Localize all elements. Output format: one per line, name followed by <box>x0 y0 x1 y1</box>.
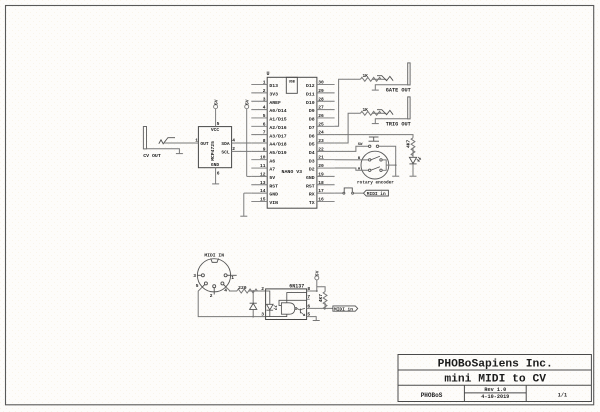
svg-text:17: 17 <box>318 188 324 194</box>
svg-text:A6: A6 <box>269 158 275 164</box>
power flag 5V (opto VCC) <box>315 270 321 279</box>
svg-text:28: 28 <box>318 96 324 102</box>
svg-text:4: 4 <box>263 105 266 111</box>
svg-text:U: U <box>267 71 270 77</box>
resistor R5 4K7 (pull-up) <box>318 292 327 310</box>
svg-text:A0/D14: A0/D14 <box>269 108 286 114</box>
svg-text:9: 9 <box>263 146 266 152</box>
svg-text:GND: GND <box>306 175 315 181</box>
svg-text:A1/D15: A1/D15 <box>269 117 286 123</box>
resistor R4 220 <box>237 285 258 293</box>
wire nano GND pin 14 to ground <box>244 193 252 216</box>
svg-text:A7: A7 <box>269 167 275 173</box>
svg-text:PHOBoSapiens Inc.: PHOBoSapiens Inc. <box>438 358 553 370</box>
svg-text:SW: SW <box>358 143 363 147</box>
svg-text:30: 30 <box>318 80 324 86</box>
svg-text:Rev 1.0: Rev 1.0 <box>484 387 506 393</box>
ground (gate jack sleeve) <box>372 89 379 91</box>
svg-text:8: 8 <box>263 138 266 144</box>
svg-text:D13: D13 <box>269 83 278 89</box>
ground (trig jack sleeve) <box>372 123 379 125</box>
svg-text:D11: D11 <box>306 92 315 98</box>
svg-text:11: 11 <box>260 163 266 169</box>
svg-text:4: 4 <box>232 138 235 144</box>
wire 4K7 to output <box>324 303 326 309</box>
svg-text:6: 6 <box>263 121 266 127</box>
wire encoder common to ground rail <box>386 164 396 166</box>
svg-text:GND: GND <box>269 192 278 198</box>
svg-text:1K: 1K <box>362 73 368 79</box>
wire nano D4 pin 22 to encoder switch <box>335 146 369 151</box>
svg-text:1K: 1K <box>362 107 368 113</box>
power flag 5V (nano 5V pin) <box>245 99 251 108</box>
svg-text:CV OUT: CV OUT <box>143 153 161 159</box>
svg-text:15: 15 <box>260 196 266 202</box>
svg-text:D6: D6 <box>309 133 315 139</box>
svg-text:NANO V3: NANO V3 <box>282 169 303 175</box>
wire nano D2 pin 20 to encoder A <box>335 168 369 170</box>
wire 220 resistor to opto pin2 <box>249 290 266 292</box>
svg-text:2: 2 <box>210 293 213 299</box>
svg-text:3: 3 <box>261 312 264 318</box>
junction 5V / 4K7 <box>316 290 318 292</box>
svg-text:MIDI IN: MIDI IN <box>204 252 224 258</box>
rotary encoder SW2 <box>357 151 394 185</box>
resistor R2 1K (trig) <box>360 107 381 115</box>
svg-text:GATE OUT: GATE OUT <box>386 87 411 93</box>
svg-text:25: 25 <box>318 121 324 127</box>
wire jumper to MIDI in label <box>354 192 364 194</box>
junction diode top <box>252 290 254 292</box>
LED D1 indicator <box>409 157 421 164</box>
ground (LED) <box>410 175 417 177</box>
power flag 5V (DAC VCC) <box>213 99 219 108</box>
net label MIDI in (RX) <box>364 190 389 197</box>
svg-text:D5: D5 <box>309 142 315 148</box>
svg-text:6N137: 6N137 <box>289 283 304 289</box>
switch SW1 (encoder push button) <box>358 137 379 148</box>
wire nano D7 pin 25 to gate resistor <box>335 79 361 126</box>
svg-text:4K7: 4K7 <box>318 294 324 303</box>
svg-text:5V: 5V <box>213 99 219 105</box>
svg-text:D3: D3 <box>309 158 315 164</box>
svg-text:rotary encoder: rotary encoder <box>357 180 394 185</box>
svg-text:5: 5 <box>196 283 199 289</box>
svg-text:D12: D12 <box>306 83 315 89</box>
svg-text:7: 7 <box>263 130 266 136</box>
junction diode bottom <box>252 316 254 318</box>
svg-text:3: 3 <box>263 96 266 102</box>
svg-text:A2/D16: A2/D16 <box>269 125 286 131</box>
svg-text:22: 22 <box>318 146 324 152</box>
svg-text:OUT: OUT <box>200 141 209 147</box>
svg-text:D9: D9 <box>309 108 315 114</box>
svg-text:5V: 5V <box>245 99 251 105</box>
svg-text:24: 24 <box>318 130 324 136</box>
jumper JP1 <box>343 188 354 194</box>
svg-text:6: 6 <box>217 170 220 176</box>
wire LED to ground <box>412 164 414 176</box>
svg-text:10: 10 <box>260 155 266 161</box>
svg-text:2: 2 <box>261 286 264 292</box>
wire 5V to opto pin 8 <box>310 280 317 291</box>
svg-text:19: 19 <box>318 171 324 177</box>
wire 5V junction to 4K7 resistor <box>317 287 325 292</box>
svg-text:21: 21 <box>318 155 324 161</box>
svg-text:4-10-2019: 4-10-2019 <box>481 394 509 400</box>
svg-text:D2: D2 <box>309 167 315 173</box>
svg-text:12: 12 <box>260 171 266 177</box>
diode D2 1N4148 (reverse protection) <box>250 291 257 317</box>
svg-text:MIDI in: MIDI in <box>334 307 353 313</box>
wire SDA DAC to pin A4/D18 <box>235 142 251 144</box>
svg-text:5V: 5V <box>315 270 321 276</box>
svg-text:D8: D8 <box>309 117 315 123</box>
svg-text:D4: D4 <box>309 150 315 156</box>
wire DIN pin5 to opto pin3 rail <box>198 287 265 316</box>
title block <box>398 355 591 402</box>
svg-text:PHOBoS: PHOBoS <box>421 392 443 399</box>
svg-text:TX: TX <box>309 200 315 206</box>
wire switch to ground rail <box>379 146 396 176</box>
svg-text:18: 18 <box>318 180 324 186</box>
svg-text:23: 23 <box>318 138 324 144</box>
net label MIDI in (opto output) <box>333 306 358 313</box>
svg-text:AREF: AREF <box>269 100 281 106</box>
microcontroller U1 Arduino NANO V3 <box>251 71 334 208</box>
svg-text:SDA: SDA <box>221 141 230 147</box>
svg-text:26: 26 <box>318 113 324 119</box>
svg-text:2: 2 <box>263 88 266 94</box>
svg-text:RX: RX <box>309 192 315 198</box>
ground (switch/encoder) <box>392 175 399 177</box>
svg-text:16: 16 <box>318 196 324 202</box>
svg-text:1: 1 <box>195 138 198 144</box>
svg-text:TRIG OUT: TRIG OUT <box>386 121 411 127</box>
ground (CV jack sleeve) <box>176 153 183 155</box>
ground (nano GND) <box>240 215 247 217</box>
wire nano D6 pin 24 to LED resistor <box>335 135 413 138</box>
svg-text:4K7: 4K7 <box>406 139 412 148</box>
svg-text:VIN: VIN <box>269 200 278 206</box>
svg-text:2: 2 <box>232 146 235 152</box>
wire nano D5 pin 23 to trig resistor <box>335 113 361 143</box>
svg-text:D10: D10 <box>306 100 315 106</box>
svg-text:VCC: VCC <box>211 127 220 133</box>
svg-text:14: 14 <box>260 188 266 194</box>
DAC U2 MCP4725 <box>195 109 235 184</box>
svg-text:5V: 5V <box>269 175 275 181</box>
svg-text:A5/D19: A5/D19 <box>269 150 286 156</box>
svg-text:5: 5 <box>263 113 266 119</box>
ground (DAC GND) <box>212 183 219 185</box>
svg-text:RST: RST <box>306 183 315 189</box>
svg-text:SCL: SCL <box>221 149 230 155</box>
svg-text:MIDI in: MIDI in <box>367 191 386 197</box>
wire resistor to LED <box>412 148 414 157</box>
jack J3 TRIG OUT <box>375 97 410 128</box>
svg-text:29: 29 <box>318 88 324 94</box>
svg-text:5: 5 <box>217 121 220 127</box>
svg-text:1: 1 <box>231 275 234 281</box>
ground (opto) <box>313 320 320 322</box>
wire 5V to nano pin 12 <box>247 109 252 177</box>
svg-text:220: 220 <box>238 285 247 291</box>
svg-text:7: 7 <box>307 294 310 300</box>
junction encoder/switch ground <box>395 164 397 166</box>
wire opto output pin 6 to MIDI in label <box>310 307 333 309</box>
optocoupler U3 6N137 <box>261 283 310 319</box>
svg-text:3V3: 3V3 <box>269 92 278 98</box>
wire DIN pin4 to 220 resistor <box>226 287 237 291</box>
wire SCL DAC to pin A5/D19 <box>235 150 251 152</box>
svg-text:1/1: 1/1 <box>558 393 567 399</box>
svg-text:mini MIDI to CV: mini MIDI to CV <box>444 374 546 386</box>
wire gate resistor to jack tip <box>372 78 386 80</box>
wire nano RX pin 17 to jumper <box>335 192 343 194</box>
resistor R3 4K7 (LED) <box>406 138 415 156</box>
svg-text:RST: RST <box>269 183 278 189</box>
svg-text:A4/D18: A4/D18 <box>269 142 286 148</box>
wire nano D3 pin 21 to encoder B <box>335 159 369 161</box>
wire opto pin 5 to ground <box>310 317 317 321</box>
connector J4 MIDI IN DIN-5 <box>193 252 236 299</box>
svg-text:27: 27 <box>318 105 324 111</box>
svg-text:1: 1 <box>263 80 266 86</box>
jack J2 GATE OUT <box>375 63 410 94</box>
svg-text:GND: GND <box>211 162 220 168</box>
svg-text:USB: USB <box>289 81 295 85</box>
svg-text:A3/D17: A3/D17 <box>269 133 286 139</box>
junction 4K7 / output <box>324 307 326 309</box>
svg-text:MCP4725: MCP4725 <box>210 141 216 161</box>
wire trig resistor to jack tip <box>372 112 386 114</box>
svg-text:13: 13 <box>260 180 266 186</box>
wire CV jack tip to DAC OUT <box>164 142 195 144</box>
resistor R1 1K (gate) <box>360 73 381 81</box>
svg-text:3: 3 <box>193 273 196 279</box>
svg-text:20: 20 <box>318 163 324 169</box>
svg-text:D7: D7 <box>309 125 315 131</box>
jack J1 CV OUT <box>143 127 179 160</box>
